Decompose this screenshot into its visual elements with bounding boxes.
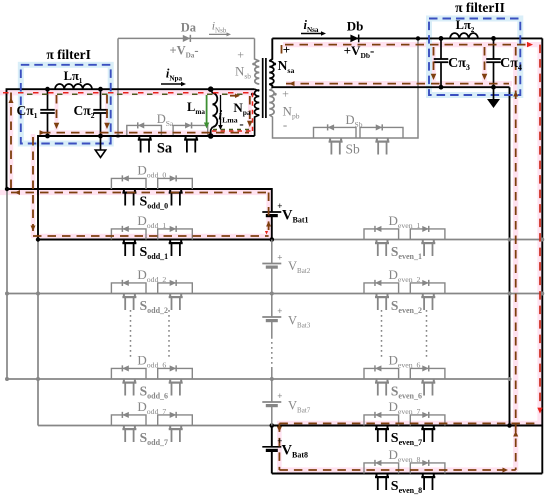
diode loop Dodd1 xyxy=(111,229,146,240)
red arrowhead bat1 xyxy=(265,231,268,235)
brown dashed bat8 column xyxy=(278,423,280,470)
brown dashed bottom wire path xyxy=(42,132,249,134)
primary bottom wire xyxy=(38,136,255,240)
diode loop Deven2 xyxy=(364,283,399,294)
Npb dot xyxy=(274,93,277,96)
left bus A gray xyxy=(6,189,8,379)
svg-text:-: - xyxy=(283,117,287,132)
left bus B gray xyxy=(37,240,39,426)
svg-text:π filterI: π filterI xyxy=(46,47,91,62)
mosfet Seven_6 A xyxy=(375,379,377,382)
light blue halo filter boxes xyxy=(21,65,111,144)
node Cpi4 bottom xyxy=(491,85,496,90)
node filter1 right bottom xyxy=(98,134,103,139)
brown tick at Nsa plus xyxy=(281,45,283,56)
pi filter II box xyxy=(429,19,520,96)
inductor Lpi2 xyxy=(450,33,478,38)
brown dashed bat1 column xyxy=(268,193,270,237)
svg-text:+: + xyxy=(277,391,282,401)
brown dashed return rail path xyxy=(286,83,509,85)
ground filter1 xyxy=(100,136,102,150)
pi filter I box xyxy=(21,65,111,144)
brown dashed down at Npa xyxy=(249,96,251,122)
mosfet Seven_1 A xyxy=(375,240,377,243)
svg-text:+: + xyxy=(237,48,244,62)
battery VBat7 xyxy=(262,401,281,403)
node Cpi4 top xyxy=(491,36,496,41)
node Cpi3 top xyxy=(439,36,444,41)
diode loop Deven6 xyxy=(364,368,399,379)
arrow iLma black xyxy=(220,95,222,126)
green arrow iLma xyxy=(206,95,208,124)
Npb top lead xyxy=(269,89,272,91)
secondary top wire xyxy=(272,37,542,39)
battery stack column xyxy=(271,216,273,240)
red dashed down Npa xyxy=(252,93,254,131)
capacitor Cpi4 xyxy=(493,38,495,59)
diode loop Deven1 xyxy=(364,229,399,240)
battery VBat1 xyxy=(262,211,281,213)
battery VBat2 xyxy=(262,263,281,265)
mosfet Sodd_6 A xyxy=(123,379,125,382)
svg-text:-: - xyxy=(239,116,243,131)
mosfet Sodd_7 B xyxy=(169,426,171,429)
mosfet Sodd_2 A xyxy=(123,294,125,297)
secondary return rail xyxy=(269,84,509,87)
diode Da xyxy=(183,35,191,42)
row Sodd_2/Seven_2 wire xyxy=(7,293,542,295)
diode loop Deven8 xyxy=(364,463,399,474)
green dashed loop bottom xyxy=(213,129,250,131)
winding Nsa xyxy=(269,61,274,84)
Npb bottom lead to Sb rail xyxy=(269,38,418,138)
inductor Lpi1 xyxy=(55,84,92,89)
diode loop 2 Dodd6 xyxy=(158,368,193,379)
diode loop Dodd6 xyxy=(111,368,146,379)
red arrow top right corner xyxy=(527,42,533,47)
inductor Lma xyxy=(211,89,213,93)
svg-text:Da: Da xyxy=(181,21,197,35)
mosfet Seven_6 B xyxy=(422,379,424,382)
diode loop 2 DSb xyxy=(360,127,403,138)
pink halo current path highlights xyxy=(0,90,256,95)
svg-text:+: + xyxy=(277,306,282,316)
brown dashed row1 path xyxy=(33,235,269,237)
brown dashed row8 path xyxy=(279,469,515,471)
row Sodd_6/Seven_6 wire xyxy=(7,378,510,380)
ellipsis dotted columns xyxy=(130,310,132,358)
arrow iNpa xyxy=(161,83,182,85)
brown dashed under Cpi1 xyxy=(56,95,58,124)
brown dashed row7 path xyxy=(279,422,540,424)
mosfet Sodd_1 A xyxy=(123,240,125,243)
diode loop DSa xyxy=(127,125,162,136)
node filter1 left top xyxy=(45,87,50,92)
diode loop 2 Dodd7 xyxy=(158,415,193,426)
svg-text:+: + xyxy=(283,42,290,57)
node Lma top xyxy=(208,86,214,92)
mosfet Sa A xyxy=(138,136,140,139)
Nsb dot xyxy=(252,63,255,66)
battery VBat8 xyxy=(262,446,281,448)
row Sodd_0 wire xyxy=(7,189,272,212)
diode loop Deven7 xyxy=(364,415,399,426)
diode loop 2 Dodd2 xyxy=(158,283,193,294)
svg-text:+: + xyxy=(282,87,289,101)
right bus A black xyxy=(509,87,511,425)
mosfet Sodd_7 A xyxy=(123,426,125,429)
mosfet Sodd_2 B xyxy=(169,294,171,297)
primary top wire xyxy=(7,89,255,189)
mosfet Seven_8 A xyxy=(375,474,377,477)
brown dashed left riser xyxy=(10,93,12,193)
capacitor Cpi1 xyxy=(47,89,49,110)
node filter1 left bottom xyxy=(45,134,50,139)
Nsa top lead xyxy=(269,38,272,61)
battery VBat3 xyxy=(262,316,281,318)
brown dashed filter2 drop A xyxy=(433,47,435,75)
svg-text:π filterII: π filterII xyxy=(455,0,505,15)
brown dashed row0 path xyxy=(11,192,269,194)
row Seven_8 wire xyxy=(272,473,543,475)
mosfet Sb A xyxy=(329,138,331,141)
mosfet Sa B xyxy=(185,136,187,139)
capacitor Cpi2 xyxy=(100,89,102,110)
ground filter2 xyxy=(493,87,495,99)
svg-text:+VDb-: +VDb- xyxy=(344,43,375,60)
winding Npb xyxy=(269,90,274,115)
arrow iNsb xyxy=(209,33,228,35)
diode loop 2 Deven8 xyxy=(410,463,445,474)
brown dashed left drop xyxy=(32,137,34,231)
transformer core xyxy=(262,58,264,118)
Nsa dot xyxy=(273,63,276,66)
mosfet Sodd_0 B xyxy=(169,189,171,192)
mosfet Seven_7 A xyxy=(375,426,377,429)
Npa bottom lead xyxy=(255,115,260,136)
diode loop 2 Deven2 xyxy=(410,283,445,294)
mosfet Seven_2 B xyxy=(422,294,424,297)
brown dashed filter2 drop B xyxy=(484,47,486,75)
brown dashed secondary feed xyxy=(285,44,526,46)
red dashed loop bottom xyxy=(212,130,253,132)
diode loop 2 Deven6 xyxy=(410,368,445,379)
brown dashed under Cpi2 xyxy=(106,95,108,124)
svg-text:Sa: Sa xyxy=(157,141,173,157)
mosfet Sodd_1 B xyxy=(169,240,171,243)
mosfet Seven_1 B xyxy=(422,240,424,243)
svg-text:+VDa-: +VDa- xyxy=(169,44,198,60)
Da loop top wire xyxy=(118,37,255,39)
diode loop Dodd0 xyxy=(111,178,146,189)
diode loop DSb xyxy=(314,127,357,138)
svg-text:Sb: Sb xyxy=(345,142,360,157)
red dashed right drop xyxy=(539,45,541,407)
Npa dot xyxy=(251,93,254,96)
Npa top lead xyxy=(255,89,260,91)
right bus B black xyxy=(541,38,543,473)
diode loop 2 Deven1 xyxy=(410,229,445,240)
row Sodd_1/Seven_1 wire xyxy=(38,239,272,241)
svg-text:Db: Db xyxy=(347,19,364,34)
capacitor Cpi3 xyxy=(440,38,442,59)
diode loop 2 Dodd0 xyxy=(158,178,193,189)
mosfet Sodd_6 B xyxy=(169,379,171,382)
arrow iNsa xyxy=(301,33,322,35)
winding Npa xyxy=(254,90,259,115)
node filter1 right top xyxy=(98,87,103,92)
Nsb lead down xyxy=(255,38,260,61)
mosfet Sodd_0 A xyxy=(123,189,125,192)
diode loop 2 DSa xyxy=(173,125,208,136)
node Lma bottom xyxy=(208,133,214,139)
diode loop Dodd7 xyxy=(111,415,146,426)
mosfet Seven_8 B xyxy=(422,474,424,477)
Da loop left drop wire xyxy=(117,38,119,136)
diode loop Dodd2 xyxy=(111,283,146,294)
red dashed primary path xyxy=(3,92,253,94)
mosfet Sb B xyxy=(376,138,378,141)
brown arrow into Npa xyxy=(230,95,236,97)
diode loop 2 Dodd1 xyxy=(158,229,193,240)
green dashed magnetizing path xyxy=(27,93,250,95)
brown dashed right riser xyxy=(515,47,517,470)
row Sodd_7/Seven_7 wire xyxy=(38,425,272,427)
node Cpi3 bottom xyxy=(439,85,444,90)
winding Nsb xyxy=(255,61,260,84)
mosfet Seven_7 B xyxy=(422,426,424,429)
diode Db xyxy=(350,34,358,42)
diode loop 2 Deven7 xyxy=(410,415,445,426)
svg-text:+: + xyxy=(277,253,282,263)
mosfet Seven_2 A xyxy=(375,294,377,297)
